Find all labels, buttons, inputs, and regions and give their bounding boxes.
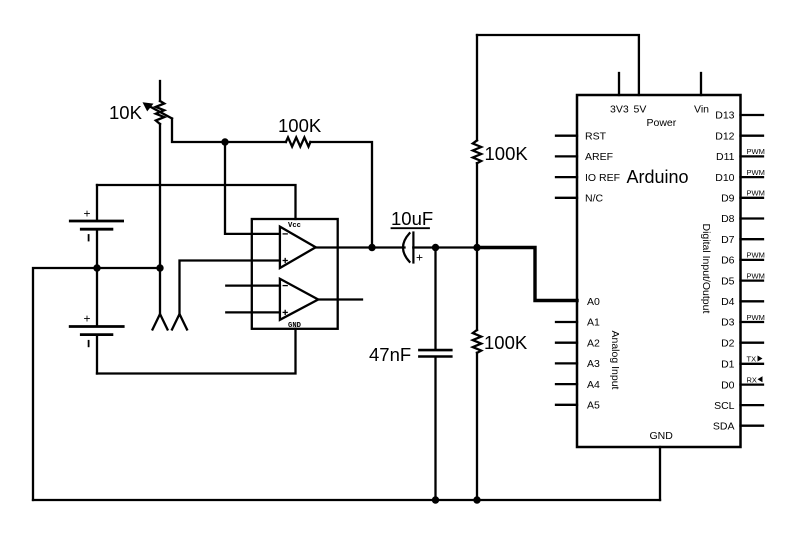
Arduino module box (577, 95, 741, 447)
Arduino left pin stub N/C (556, 197, 577, 199)
svg-text:10K: 10K (109, 102, 143, 123)
Arduino right pin stub D5 (741, 279, 764, 281)
svg-text:47nF: 47nF (369, 344, 411, 365)
op-amp U1B plus pin mark (283, 310, 287, 314)
svg-text:PWM: PWM (747, 189, 765, 198)
svg-text:D7: D7 (721, 234, 735, 246)
svg-text:D12: D12 (715, 130, 734, 142)
Arduino right pin stub D4 (741, 300, 764, 302)
svg-text:D1: D1 (721, 359, 735, 371)
node op-amp output junction (368, 244, 375, 251)
wire feedback resistor to op-amp output node (310, 142, 372, 248)
Arduino right pin stub D12 (741, 135, 764, 137)
svg-text:Analog Input: Analog Input (609, 331, 621, 390)
battery B1 (70, 185, 122, 268)
Arduino left pin stub AREF (556, 155, 577, 157)
op-amp U1A triangle (280, 227, 316, 268)
wire pot bottom leg (159, 124, 161, 314)
capacitor C2 47nF (419, 350, 451, 356)
svg-text:GND: GND (288, 322, 302, 330)
Arduino right pin stub D13 (741, 114, 764, 116)
battery B2 (70, 268, 123, 374)
svg-text:D0: D0 (721, 379, 735, 391)
Arduino right pin stub D7 (741, 238, 764, 240)
svg-text:Arduino: Arduino (627, 167, 689, 187)
Arduino right pin stub D3 (741, 321, 764, 323)
op-amp U1B output stub (318, 298, 362, 300)
Arduino right pin stub D0 (741, 383, 764, 385)
wire pulldown to ground rail (476, 353, 478, 500)
wire 5V rail top (477, 35, 639, 95)
wire op-amp non-inverting input to right crow foot (180, 261, 280, 315)
svg-text:5V: 5V (634, 104, 647, 116)
node A junction (221, 138, 228, 145)
potentiometer wiper arrow (143, 102, 173, 118)
Arduino right pin stub D11 (741, 155, 764, 157)
svg-text:Vin: Vin (694, 104, 709, 116)
open connector left (crow foot) (153, 314, 168, 330)
node 47nF branch junction (432, 244, 439, 251)
svg-text:D8: D8 (721, 213, 735, 225)
svg-text:IO REF: IO REF (585, 172, 620, 184)
potentiometer R1 10K body (156, 81, 164, 124)
wire node A down to op-amp inverting input (225, 142, 280, 234)
svg-text:+: + (84, 207, 91, 221)
op-amp U1A minus pin mark (283, 233, 287, 235)
op-amp U1B inverting input stub (226, 284, 280, 286)
svg-text:PWM: PWM (747, 168, 765, 177)
svg-text:AREF: AREF (585, 151, 613, 163)
svg-text:D13: D13 (715, 110, 734, 122)
svg-text:D6: D6 (721, 255, 735, 267)
wire 10uF to A0 node (413, 246, 477, 248)
Arduino left pin stub RST (556, 135, 577, 137)
svg-text:100K: 100K (278, 115, 322, 136)
Arduino right pin stub D10 (741, 176, 764, 178)
svg-text:+: + (84, 312, 91, 326)
capacitor C1 10uF polarized (403, 233, 413, 263)
Arduino left pin stub IO REF (556, 176, 577, 178)
ground rail bottom (33, 499, 660, 501)
svg-text:D9: D9 (721, 193, 735, 205)
op-amp U1A plus pin mark (283, 259, 287, 263)
svg-text:D4: D4 (721, 296, 735, 308)
wire divider upper segment (476, 35, 478, 140)
wire divider to pulldown (476, 248, 478, 331)
node divider ground junction (473, 496, 480, 503)
Arduino right pin stub D6 (741, 259, 764, 261)
wire battery B2 bottom to op-amp GND (97, 329, 296, 374)
wire 47nF branch lower (434, 358, 436, 500)
Arduino left pin stub A2 (556, 342, 577, 344)
svg-text:3V3: 3V3 (610, 104, 629, 116)
battery B1 minus label (88, 235, 90, 241)
svg-text:A5: A5 (587, 400, 600, 412)
wire signal to A0 (thick) (477, 248, 577, 301)
svg-text:D3: D3 (721, 317, 735, 329)
svg-text:A2: A2 (587, 337, 600, 349)
svg-text:Vcc: Vcc (288, 222, 301, 230)
svg-text:PWM: PWM (747, 147, 765, 156)
svg-text:10uF: 10uF (391, 208, 433, 229)
battery B2 minus label (88, 341, 90, 347)
Arduino left pin stub A5 (556, 404, 577, 406)
svg-text:D11: D11 (716, 151, 735, 163)
Arduino left pin stub A4 (556, 383, 577, 385)
Arduino Vin pin stub (700, 73, 702, 95)
label 10uF underline (392, 227, 430, 229)
svg-text:D10: D10 (715, 172, 734, 184)
op-amp U1B minus pin mark (283, 285, 287, 287)
Arduino left pin stub A3 (556, 362, 577, 364)
svg-text:PWM: PWM (747, 313, 765, 322)
op-amp U1 package box (252, 219, 338, 329)
TX tag D1 (747, 355, 763, 364)
wire battery midpoint rail (33, 268, 160, 500)
svg-text:+: + (416, 251, 423, 265)
svg-text:A4: A4 (587, 379, 600, 391)
node divider junction (473, 244, 480, 251)
Arduino right pin stub SDA (741, 425, 764, 427)
svg-text:PWM: PWM (747, 251, 765, 260)
wire op-amp U1A output to 10uF (316, 246, 405, 248)
wire node A to feedback resistor (225, 141, 286, 143)
svg-text:SCL: SCL (714, 400, 735, 412)
svg-text:A0: A0 (587, 296, 600, 308)
resistor 100K pullup (473, 140, 481, 163)
Arduino left pin stub A1 (556, 321, 577, 323)
op-amp U1B non-inverting input stub (226, 311, 280, 313)
RX tag D0 (747, 375, 763, 384)
Arduino GND pin stub (659, 447, 661, 500)
node battery midpoint junction (93, 264, 100, 271)
svg-text:SDA: SDA (713, 420, 735, 432)
wire wiper to node A (172, 119, 225, 143)
svg-text:Power: Power (647, 117, 677, 129)
wire 47nF branch upper (434, 248, 436, 349)
svg-text:A1: A1 (587, 317, 600, 329)
wire battery B1 top to op-amp Vcc (97, 185, 296, 219)
resistor 100K feedback (286, 137, 311, 146)
svg-text:D5: D5 (721, 275, 735, 287)
Arduino right pin stub D9 (741, 197, 764, 199)
svg-text:GND: GND (650, 430, 674, 442)
node 47nF ground junction (432, 496, 439, 503)
node pot bottom junction (156, 264, 163, 271)
Arduino 3V3 pin stub (618, 73, 620, 95)
svg-text:D2: D2 (721, 337, 735, 349)
Arduino right pin stub SCL (741, 404, 764, 406)
svg-text:100K: 100K (484, 332, 528, 353)
svg-text:Digital Input/Output: Digital Input/Output (700, 224, 712, 314)
svg-text:TX: TX (747, 355, 757, 364)
svg-text:100K: 100K (485, 143, 529, 164)
Arduino right pin stub D2 (741, 342, 764, 344)
svg-text:RST: RST (585, 130, 607, 142)
svg-text:PWM: PWM (747, 271, 765, 280)
op-amp U1B triangle (280, 279, 318, 320)
svg-text:A3: A3 (587, 358, 600, 370)
wire pullup to node (476, 163, 478, 247)
svg-text:RX: RX (747, 375, 757, 384)
open connector right (crow foot) (172, 314, 187, 330)
Arduino right pin stub D8 (741, 217, 764, 219)
resistor 100K pulldown (473, 330, 481, 353)
svg-text:N/C: N/C (585, 193, 604, 205)
Arduino right pin stub D1 (741, 363, 764, 365)
